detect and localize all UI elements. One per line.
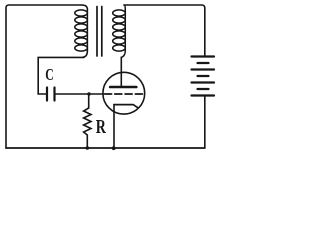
label C [46, 69, 53, 80]
capacitor C plates [47, 88, 55, 101]
wire: cathode to bottom rail [113, 105, 115, 148]
resistor R [84, 94, 91, 148]
wire: L2 top to battery + terminal [124, 5, 205, 57]
wire: L2 bottom to plate of V1 [120, 57, 122, 86]
transformer secondary coil L2 [113, 5, 126, 58]
wire: capacitor to grid of V1 [56, 93, 104, 95]
transformer primary coil L1 [75, 5, 88, 57]
wire: L1 bottom to capacitor C [38, 57, 84, 94]
wire: bottom rail [6, 147, 205, 149]
node: cathode / bottom rail junction [112, 146, 116, 150]
wire: top-left rail and left rail (L1 top to bottom rail) [6, 5, 82, 148]
battery B [192, 57, 215, 96]
node: grid / resistor junction [87, 92, 90, 95]
plate (anode) [110, 86, 136, 89]
triode V1 [103, 72, 145, 114]
wire: battery - terminal to bottom rail [204, 96, 206, 149]
cathode / filament [114, 105, 137, 108]
transformer core [97, 7, 102, 57]
grid (dashed) [105, 93, 143, 95]
node: resistor / bottom rail junction [86, 146, 90, 150]
tube envelope [103, 72, 145, 114]
label R [96, 120, 106, 133]
